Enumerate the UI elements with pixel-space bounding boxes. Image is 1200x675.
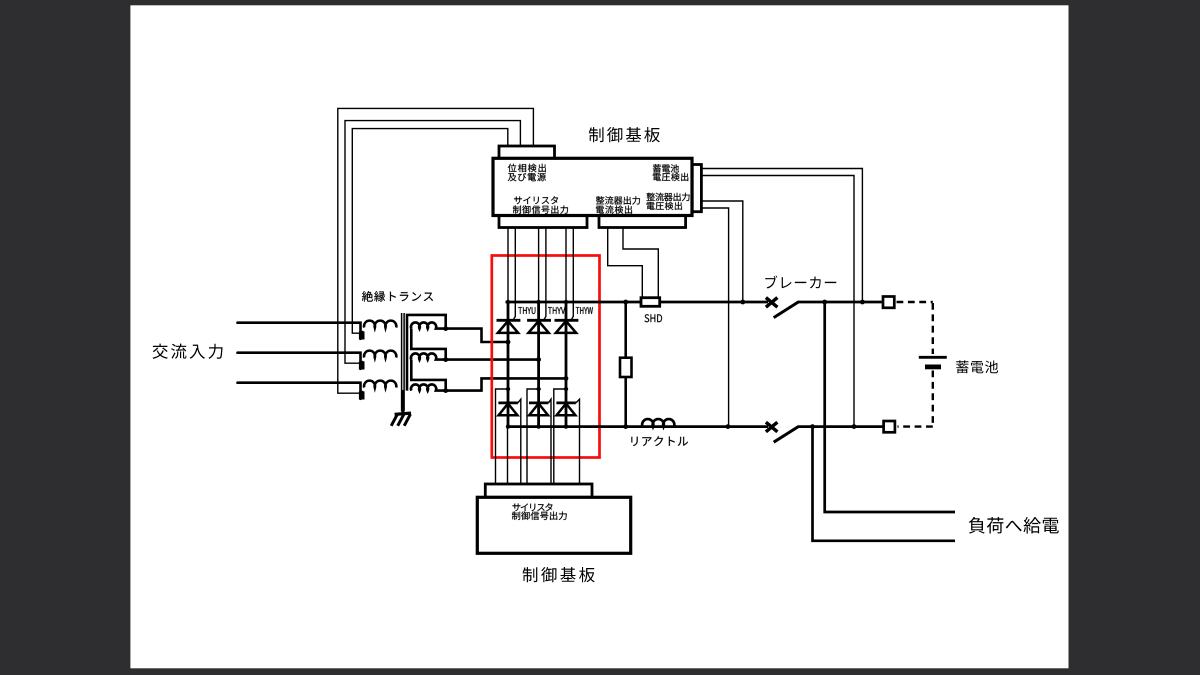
label THYU [518, 307, 535, 314]
wire gate lead THYW2 (bottom board) [576, 399, 580, 484]
wire rectifier output voltage sense + [701, 201, 742, 302]
main leg W (thyristor column) [565, 302, 568, 427]
control board (top) outline [493, 146, 701, 228]
junction leg V midpoint [536, 357, 541, 362]
junction leg V at negative bus [536, 424, 540, 428]
thyristor THYV (top) [527, 320, 551, 333]
battery terminal square - [884, 421, 895, 432]
label THYW [576, 307, 593, 314]
wire load feed - [813, 427, 956, 541]
transformer secondary bracket wire [407, 315, 446, 391]
wire cathode sense V (bottom board) [527, 389, 539, 484]
wire AC input phase 3 [238, 383, 361, 399]
junction leg W at negative bus [564, 424, 568, 428]
wire secondary output W [446, 378, 566, 390]
transformer primary winding 1 [359, 321, 396, 340]
negative bus after breaker [798, 425, 884, 428]
wire rectifier output voltage sense - [701, 208, 728, 427]
label control board title 制御基板 (top) [589, 127, 660, 142]
transformer secondary winding 2 [411, 353, 446, 359]
wire gate lead THYV (top) [544, 228, 546, 321]
wire gate lead THYU (top) [513, 228, 515, 321]
junction primary terminal 3 [360, 391, 365, 396]
junction divider at negative bus [623, 424, 628, 429]
main leg V (thyristor column) [537, 302, 540, 427]
ground (transformer core earth) [391, 390, 411, 426]
wire gate lead THYU2 (bottom board) [518, 399, 521, 484]
wire leg U control (cathode lead to board) [507, 228, 509, 303]
label リアクトル [631, 436, 688, 446]
thyristor THYW2 (bottom) [556, 403, 576, 415]
wire current-sense to SHD a [608, 228, 643, 298]
junction battery sense - on negative bus [852, 424, 857, 429]
junction secondary output node 1 [443, 326, 448, 331]
wire gate lead THYW (top) [571, 228, 573, 321]
junction rectifier voltage sense at positive bus [740, 300, 745, 305]
breaker (positive side) [766, 298, 799, 318]
junction leg V cathode-sense tap [536, 387, 540, 391]
wire secondary interconnect 1 [411, 329, 445, 360]
wire leg V control (cathode lead to board) [538, 228, 540, 303]
thyristor THYU2 (bottom) [498, 403, 518, 415]
transformer primary winding 2 [359, 351, 396, 370]
junction leg U cathode-sense tap [506, 387, 510, 391]
junction load feed - [810, 424, 815, 429]
junction positive bus / shunt branch [623, 300, 628, 305]
label isolation transformer 絶縁トランス [362, 291, 433, 302]
label THYV [548, 307, 565, 314]
wire voltage divider branch [624, 302, 627, 427]
thyristor THYU (top) [497, 320, 521, 333]
wire negative bus tap to bottom board [507, 427, 509, 484]
label AC input 交流入力 [153, 344, 223, 359]
junction rectifier voltage sense at negative bus [726, 424, 731, 429]
dashed battery lead - [898, 371, 933, 427]
battery 蓄電池 symbol [919, 357, 947, 367]
wire current-sense to SHD b [623, 228, 658, 298]
junction secondary output node 2 [443, 357, 448, 362]
junction leg U midpoint [506, 340, 511, 345]
junction leg W cathode-sense tap [564, 387, 568, 391]
wire secondary interconnect 2 [411, 360, 445, 391]
transformer secondary winding 1 [411, 322, 446, 328]
wire phase-sense loop 2 (control board to transformer primary) [345, 121, 520, 364]
junction leg U at negative bus [506, 424, 510, 428]
label 整流器出力 電流検出 [596, 196, 640, 214]
transformer secondary winding 3 [411, 384, 446, 390]
wire load feed + [825, 302, 955, 512]
positive bus (top) [506, 301, 769, 304]
label 蓄電池 電圧検出 [653, 164, 688, 181]
reactor リアクトル [642, 419, 674, 427]
wire phase-sense loop 3 (control board to transformer primary) [338, 108, 534, 393]
dashed battery lead + [897, 301, 933, 303]
wire AC input phase 2 [238, 353, 361, 369]
transformer primary winding 3 [359, 381, 396, 400]
wire battery voltage sense - [701, 176, 854, 427]
red highlight box around thyristor bridge [492, 256, 600, 458]
wire AC input phase 1 [238, 323, 361, 339]
wire cathode sense U (bottom board) [496, 389, 509, 484]
label サイリスタ 制御信号出力 (bottom board) [512, 503, 567, 520]
junction secondary output node 3 [443, 388, 448, 393]
wire secondary output U [446, 329, 508, 342]
label 位相検出 及び電源 [508, 164, 546, 182]
negative bus (reactor line) [508, 425, 768, 428]
shunt SHD [641, 298, 660, 307]
main leg U (thyristor column) [507, 302, 510, 427]
wire battery voltage sense + [701, 169, 862, 303]
label load 負荷へ給電 [969, 517, 1059, 534]
label SHD [645, 314, 663, 322]
battery terminal square + [883, 297, 894, 308]
junction leg W midpoint [564, 376, 569, 381]
wire phase-sense loop 1 (control board to transformer primary) [352, 129, 508, 334]
thyristor THYV2 (bottom) [529, 403, 549, 415]
positive bus after breaker [798, 301, 884, 304]
label 整流器出力 電圧検出 (right) [647, 193, 690, 210]
label breaker ブレーカー [765, 276, 836, 289]
wire gate lead THYV2 (bottom board) [549, 399, 552, 484]
junction primary terminal 1 [360, 331, 365, 336]
thyristor THYW (top) [555, 320, 579, 333]
transformer core [402, 313, 405, 412]
label サイリスタ 制御信号出力 (top board) [513, 196, 568, 214]
control board (bottom) outline [477, 484, 630, 553]
junction primary terminal 2 [360, 361, 365, 366]
breaker (negative side) [766, 422, 799, 442]
wire leg W control (cathode lead to board) [565, 228, 567, 303]
junction battery sense + on positive bus [860, 300, 865, 305]
resistor (output voltage divider) [620, 358, 632, 377]
label control board title 制御基板 (bottom) [523, 567, 595, 582]
wire secondary output V [446, 358, 539, 361]
wire cathode sense W (bottom board) [554, 389, 566, 484]
junction load feed + [822, 300, 827, 305]
junction leg W at positive bus [564, 300, 568, 304]
label battery 蓄電池 [956, 360, 998, 373]
junction leg V at positive bus [536, 300, 540, 304]
junction leg U at positive bus [506, 300, 510, 304]
